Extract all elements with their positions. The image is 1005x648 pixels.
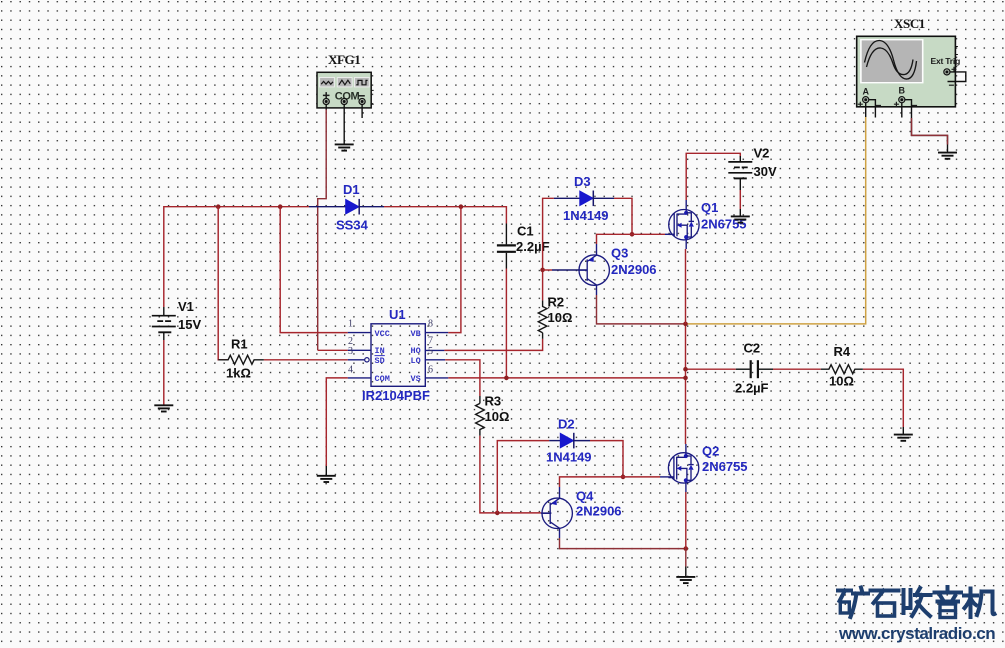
wire COM to ground bbox=[326, 378, 348, 466]
wire Q2 drain up to VS node bbox=[685, 444, 687, 453]
node VS row end junction bbox=[683, 376, 688, 381]
wire rail D1 anode lead bbox=[309, 206, 346, 208]
resistor R2 bbox=[538, 295, 572, 339]
wire XSC1 B plus stub bbox=[901, 103, 903, 118]
svg-text:LO: LO bbox=[411, 356, 421, 366]
wire D3 anode branch bbox=[543, 198, 554, 270]
node C2 branch junction bbox=[683, 367, 688, 372]
svg-text:U1: U1 bbox=[389, 307, 406, 322]
wire D3 cathode to gate junction bbox=[614, 198, 632, 234]
svg-text:2N2906: 2N2906 bbox=[611, 262, 657, 277]
svg-text:C2: C2 bbox=[744, 341, 761, 356]
svg-text:R4: R4 bbox=[834, 344, 851, 359]
ground (V1) bbox=[154, 405, 173, 411]
wire LO to R3 top bbox=[445, 360, 480, 396]
node Q2 gate junction bbox=[621, 475, 626, 480]
diode D2 bbox=[546, 417, 592, 465]
wire R3 bottom to Q4 base bbox=[480, 436, 541, 513]
svg-text:VS: VS bbox=[411, 374, 421, 384]
svg-text:A: A bbox=[863, 87, 870, 97]
wire gate junction to Q2 gate bbox=[623, 476, 660, 478]
resistor R3 bbox=[476, 394, 510, 436]
resistor R1 bbox=[218, 337, 263, 381]
svg-text:VB: VB bbox=[411, 329, 421, 339]
wire scope channel A (orange) bbox=[865, 103, 867, 117]
svg-text:10Ω: 10Ω bbox=[485, 409, 510, 424]
transistor Q2 2N6755 bbox=[668, 444, 747, 484]
svg-text:IN: IN bbox=[375, 346, 385, 356]
svg-text:10Ω: 10Ω bbox=[829, 374, 854, 389]
svg-text:D1: D1 bbox=[343, 182, 360, 197]
ground (Q2 source) bbox=[676, 577, 695, 583]
battery V1 bbox=[152, 299, 202, 340]
ground (V2) bbox=[731, 216, 750, 222]
wire C1 bottom to VS row bbox=[505, 269, 507, 378]
svg-text:Q2: Q2 bbox=[702, 444, 719, 459]
wire output node vertical bbox=[685, 324, 687, 378]
svg-text:COM: COM bbox=[375, 374, 390, 384]
wire XFG1 plus to U1 IN bbox=[325, 105, 327, 110]
wire C2 to R4 bbox=[773, 368, 821, 370]
svg-text:D2: D2 bbox=[558, 417, 575, 432]
capacitor C2 bbox=[735, 341, 773, 396]
wire R1 to U1 SD bbox=[264, 359, 348, 361]
capacitor C1 bbox=[497, 224, 550, 269]
svg-text:2.2µF: 2.2µF bbox=[735, 381, 769, 396]
svg-text:XFG1: XFG1 bbox=[328, 52, 360, 67]
wire D1 cathode lead bbox=[359, 206, 384, 208]
svg-text:8: 8 bbox=[428, 318, 433, 329]
svg-text:5: 5 bbox=[428, 346, 433, 357]
wire Q3 base lead bbox=[543, 269, 552, 271]
wire Q1 source down bbox=[685, 240, 687, 249]
node Q2 source junction bbox=[684, 546, 689, 551]
transistor Q1 2N6755 bbox=[669, 200, 747, 240]
wire gate junction to Q1 gate bbox=[632, 233, 665, 235]
wire D2 cathode to Q2 gate junction bbox=[590, 441, 623, 477]
wire gate junction to Q3 emitter bbox=[597, 234, 633, 244]
wire D2 anode branch bbox=[497, 441, 549, 513]
node rail/R1 junction bbox=[216, 204, 221, 209]
svg-text:R2: R2 bbox=[548, 295, 565, 310]
wire R4 to ground bbox=[863, 369, 903, 427]
node C1/VS junction bbox=[504, 376, 509, 381]
wire XSC1 B minus to ground bbox=[905, 100, 948, 153]
svg-text:Q4: Q4 bbox=[576, 489, 594, 504]
svg-text:Q1: Q1 bbox=[701, 200, 718, 215]
wire XFG1 COM to ground bbox=[343, 105, 345, 144]
wire IN branch bbox=[318, 349, 348, 351]
svg-text:www.crystalradio.cn: www.crystalradio.cn bbox=[838, 624, 995, 643]
svg-text:7: 7 bbox=[428, 335, 433, 346]
svg-text:6: 6 bbox=[428, 365, 433, 376]
ground (XFG1 COM) bbox=[335, 144, 354, 150]
watermark logo bbox=[838, 587, 995, 618]
resistor R4 bbox=[821, 344, 863, 389]
wire VB branch bbox=[448, 207, 461, 333]
svg-text:VCC: VCC bbox=[375, 329, 390, 339]
ground (R4) bbox=[894, 435, 913, 441]
op-amp driver U1 IR2104PBF bbox=[348, 307, 449, 403]
ground (XSC1 B) bbox=[938, 153, 957, 159]
wire Q3 collector to Q1 source row bbox=[596, 285, 598, 295]
svg-text:V1: V1 bbox=[178, 299, 194, 314]
wire HO to R2 bottom bbox=[444, 339, 542, 351]
node Q1 source junction bbox=[683, 322, 688, 327]
wire VCC branch bbox=[280, 207, 348, 333]
svg-text:V2: V2 bbox=[754, 146, 770, 161]
battery V2 bbox=[728, 146, 777, 191]
wire VS row bbox=[448, 377, 685, 379]
svg-text:1N4149: 1N4149 bbox=[546, 450, 592, 465]
svg-text:HO: HO bbox=[411, 346, 421, 356]
svg-text:3: 3 bbox=[348, 346, 353, 357]
svg-text:SD: SD bbox=[375, 356, 385, 366]
wire V1 to ground bbox=[163, 340, 165, 405]
node rail/VCC junction bbox=[278, 204, 283, 209]
oscilloscope XSC1 bbox=[857, 16, 966, 107]
svg-text:Ext Trig: Ext Trig bbox=[931, 56, 961, 66]
diode D1 bbox=[336, 182, 369, 233]
svg-text:2.2µF: 2.2µF bbox=[516, 239, 550, 254]
transistor Q4 2N2906 bbox=[542, 489, 622, 529]
wire gate junction to Q4 emitter bbox=[560, 477, 624, 487]
wire Q4 collector to bottom row bbox=[559, 528, 561, 538]
svg-text:C1: C1 bbox=[517, 224, 534, 239]
svg-text:4: 4 bbox=[348, 365, 353, 376]
wire XFG1 minus stub bbox=[361, 105, 363, 118]
wire rail down to R1 bbox=[218, 207, 228, 360]
svg-text:Q3: Q3 bbox=[611, 246, 628, 261]
wire Q2 source down to ground bbox=[685, 483, 687, 492]
svg-text:2N2906: 2N2906 bbox=[576, 504, 622, 519]
svg-text:R3: R3 bbox=[485, 394, 502, 409]
function generator XFG1 bbox=[317, 52, 374, 108]
svg-text:D3: D3 bbox=[574, 174, 591, 189]
node Q1 gate junction bbox=[630, 232, 635, 237]
svg-text:10Ω: 10Ω bbox=[548, 310, 573, 325]
ground (U1 COM) bbox=[317, 476, 336, 482]
node rail/VB junction bbox=[459, 204, 464, 209]
svg-text:B: B bbox=[899, 86, 906, 96]
wire rail to C1 top bbox=[384, 207, 506, 224]
wire main 15V rail bbox=[164, 207, 309, 307]
transistor Q3 2N2906 bbox=[579, 246, 657, 286]
wire XSC1 A minus stub bbox=[869, 100, 875, 118]
wire Q1 drain to V2 bbox=[685, 200, 687, 210]
svg-text:IR2104PBF: IR2104PBF bbox=[362, 388, 430, 403]
node R2/D3/Q3 base junction bbox=[540, 268, 545, 273]
wire output node to C2 bbox=[686, 368, 736, 370]
wire V2 to ground bbox=[739, 190, 741, 209]
svg-text:1N4149: 1N4149 bbox=[563, 208, 609, 223]
svg-text:R1: R1 bbox=[231, 337, 248, 352]
svg-text:XSC1: XSC1 bbox=[894, 16, 925, 31]
svg-text:2N6755: 2N6755 bbox=[702, 459, 748, 474]
node R3/D2/Q4 base junction bbox=[495, 511, 500, 516]
diode D3 bbox=[554, 174, 614, 223]
svg-text:15V: 15V bbox=[178, 317, 201, 332]
svg-text:30V: 30V bbox=[754, 164, 777, 179]
svg-text:SS34: SS34 bbox=[336, 218, 369, 233]
wire R2 top to Q3 base junction bbox=[542, 270, 544, 301]
svg-text:1: 1 bbox=[348, 318, 353, 329]
svg-text:1kΩ: 1kΩ bbox=[226, 366, 251, 381]
